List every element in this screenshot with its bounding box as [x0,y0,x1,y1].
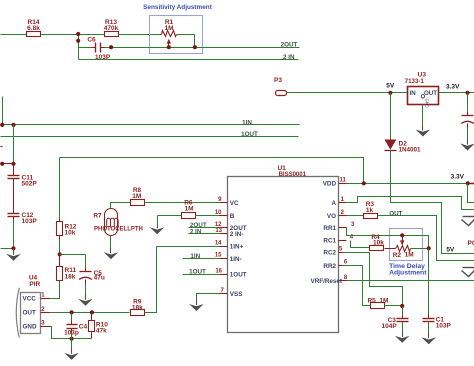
svg-text:16: 16 [215,268,222,274]
svg-text:5V: 5V [386,83,395,90]
svg-text:1OUT: 1OUT [230,272,247,279]
svg-text:PO: PO [468,240,474,247]
svg-text:18k: 18k [65,273,76,280]
svg-text:1N4001: 1N4001 [399,147,422,154]
svg-text:14: 14 [215,241,222,247]
svg-text:R2: R2 [393,252,402,259]
svg-text:PHOTOCELLPTH: PHOTOCELLPTH [94,227,143,233]
svg-text:PIR: PIR [29,281,40,288]
svg-text:1OUT: 1OUT [189,269,206,276]
svg-text:C4: C4 [79,324,88,331]
svg-text:P3: P3 [274,77,282,84]
svg-text:1M: 1M [132,193,141,200]
svg-text:3.3V: 3.3V [451,174,465,181]
svg-text:12: 12 [215,222,222,228]
svg-text:18k: 18k [132,305,143,312]
svg-text:VCC: VCC [23,296,37,303]
svg-text:1OUT: 1OUT [241,131,258,138]
svg-text:2 IN: 2 IN [283,54,295,61]
svg-text:BISS0001: BISS0001 [279,172,307,178]
svg-text:RC2: RC2 [323,249,336,256]
svg-text:VC: VC [230,200,239,207]
svg-text:1M: 1M [405,252,414,259]
svg-text:470k: 470k [104,25,119,32]
svg-text:VO: VO [327,213,336,220]
svg-text:103P: 103P [22,218,38,225]
svg-text:1IN: 1IN [190,253,200,260]
svg-text:47k: 47k [96,328,107,335]
svg-text:R5: R5 [367,297,376,304]
svg-text:1M: 1M [379,297,388,304]
svg-text:RR2: RR2 [323,263,336,270]
svg-text:B: B [230,213,235,220]
svg-text:VSS: VSS [230,291,243,298]
svg-text:10k: 10k [373,239,384,246]
svg-text:6.8k: 6.8k [27,25,40,32]
svg-text:3.3V: 3.3V [446,83,460,90]
svg-text:2 IN-: 2 IN- [230,231,244,238]
svg-text:OUT: OUT [389,211,402,218]
svg-text:11: 11 [340,178,347,184]
svg-text:IN: IN [410,90,417,97]
svg-text:RR1: RR1 [323,225,336,232]
svg-text:VDD: VDD [323,181,337,188]
svg-text:OUT: OUT [424,90,437,97]
svg-text:1IN-: 1IN- [230,256,242,263]
svg-text:A: A [331,200,336,207]
svg-text:R7: R7 [93,213,102,220]
svg-text:Adjustment: Adjustment [389,270,427,277]
svg-text:10k: 10k [65,230,76,237]
svg-text:502P: 502P [22,181,38,188]
svg-text:104P: 104P [382,323,398,330]
svg-text:GND: GND [23,323,37,330]
svg-text:1M: 1M [164,25,173,32]
svg-text:103P: 103P [436,323,452,330]
svg-text:47u: 47u [94,275,105,282]
svg-text:1IN: 1IN [242,119,252,126]
svg-text:C6: C6 [87,37,96,44]
svg-text:1IN+: 1IN+ [230,244,244,251]
svg-text:Sensitivity Adjustment: Sensitivity Adjustment [143,4,213,11]
svg-text:1M: 1M [184,206,193,213]
svg-text:GND: GND [425,99,430,108]
svg-text:OUT: OUT [23,310,36,317]
svg-text:RC1: RC1 [323,238,336,245]
svg-text:VRF/Reset: VRF/Reset [311,278,343,285]
svg-text:1k: 1k [366,207,374,214]
svg-text:10: 10 [215,210,222,216]
svg-text:U1: U1 [277,165,286,172]
svg-text:7133-1: 7133-1 [405,78,425,85]
svg-text:2 IN: 2 IN [190,228,202,235]
svg-text:103P: 103P [95,54,111,61]
svg-text:5V: 5V [446,246,455,253]
svg-text:2OUT: 2OUT [281,42,298,49]
svg-text:15: 15 [215,253,222,259]
